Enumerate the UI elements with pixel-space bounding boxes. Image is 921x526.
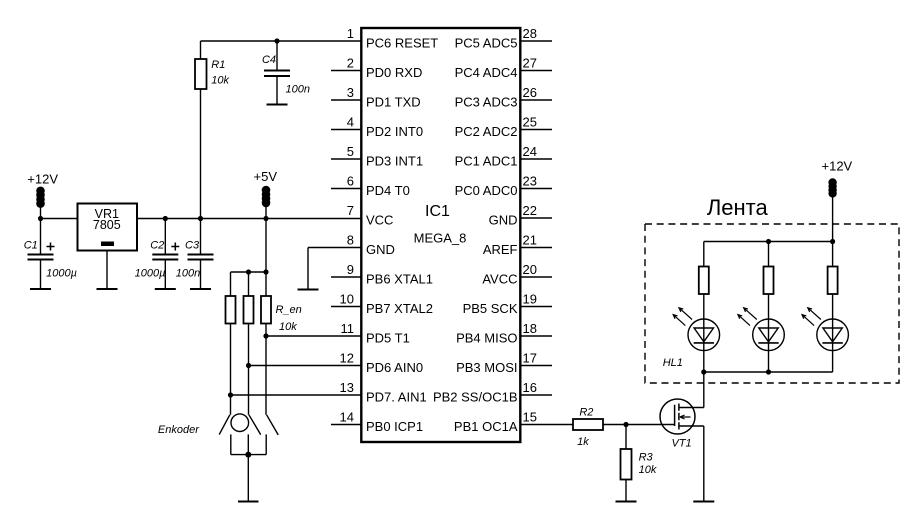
svg-text:16: 16 bbox=[523, 380, 537, 395]
svg-text:C2: C2 bbox=[150, 240, 164, 252]
svg-text:100n: 100n bbox=[176, 268, 200, 280]
svg-text:14: 14 bbox=[340, 410, 354, 425]
svg-text:24: 24 bbox=[523, 144, 537, 159]
svg-text:4: 4 bbox=[347, 115, 354, 130]
svg-text:1000µ: 1000µ bbox=[135, 268, 166, 280]
svg-text:12: 12 bbox=[340, 351, 354, 366]
svg-text:9: 9 bbox=[347, 262, 354, 277]
svg-text:20: 20 bbox=[523, 262, 537, 277]
svg-text:PD7. AIN1: PD7. AIN1 bbox=[366, 390, 427, 405]
svg-text:25: 25 bbox=[523, 115, 537, 130]
svg-text:27: 27 bbox=[523, 56, 537, 71]
svg-text:MEGA_8: MEGA_8 bbox=[414, 231, 467, 246]
svg-text:1k: 1k bbox=[577, 436, 589, 448]
svg-text:PC5 ADC5: PC5 ADC5 bbox=[455, 36, 518, 51]
svg-text:PB5 SCK: PB5 SCK bbox=[463, 301, 518, 316]
svg-text:1: 1 bbox=[347, 26, 354, 41]
svg-text:+12V: +12V bbox=[822, 159, 853, 174]
svg-text:PC1 ADC1: PC1 ADC1 bbox=[455, 154, 518, 169]
svg-text:5: 5 bbox=[347, 144, 354, 159]
svg-text:10: 10 bbox=[340, 292, 354, 307]
svg-text:15: 15 bbox=[523, 410, 537, 425]
svg-text:PD3 INT1: PD3 INT1 bbox=[366, 154, 423, 169]
svg-text:PC3 ADC3: PC3 ADC3 bbox=[455, 95, 518, 110]
svg-text:GND: GND bbox=[366, 242, 395, 257]
svg-text:PD6 AIN0: PD6 AIN0 bbox=[366, 360, 423, 375]
svg-text:26: 26 bbox=[523, 85, 537, 100]
svg-text:+5V: +5V bbox=[254, 169, 278, 184]
svg-text:Лента: Лента bbox=[707, 195, 769, 220]
svg-text:+12V: +12V bbox=[27, 172, 58, 187]
svg-text:10k: 10k bbox=[639, 464, 657, 476]
svg-text:C1: C1 bbox=[24, 240, 38, 252]
svg-text:PC4 ADC4: PC4 ADC4 bbox=[455, 65, 518, 80]
svg-text:10k: 10k bbox=[279, 321, 297, 333]
svg-text:PD1 TXD: PD1 TXD bbox=[366, 95, 421, 110]
svg-text:R1: R1 bbox=[211, 59, 225, 71]
svg-text:100n: 100n bbox=[286, 84, 310, 96]
svg-text:IC1: IC1 bbox=[425, 203, 450, 220]
svg-text:PD2 INT0: PD2 INT0 bbox=[366, 124, 423, 139]
svg-text:C4: C4 bbox=[262, 54, 276, 66]
svg-text:VT1: VT1 bbox=[672, 438, 692, 450]
svg-text:1000µ: 1000µ bbox=[46, 268, 77, 280]
svg-text:23: 23 bbox=[523, 174, 537, 189]
svg-text:19: 19 bbox=[523, 292, 537, 307]
svg-text:VCC: VCC bbox=[366, 213, 393, 228]
svg-text:PD0 RXD: PD0 RXD bbox=[366, 65, 422, 80]
svg-text:PC0 ADC0: PC0 ADC0 bbox=[455, 183, 518, 198]
svg-text:PB6 XTAL1: PB6 XTAL1 bbox=[366, 272, 433, 287]
svg-text:13: 13 bbox=[340, 380, 354, 395]
svg-text:18: 18 bbox=[523, 321, 537, 336]
svg-text:17: 17 bbox=[523, 351, 537, 366]
svg-text:22: 22 bbox=[523, 203, 537, 218]
svg-text:7805: 7805 bbox=[93, 218, 121, 232]
svg-text:6: 6 bbox=[347, 174, 354, 189]
svg-text:PB1 OC1A: PB1 OC1A bbox=[454, 419, 518, 434]
svg-text:R_en: R_en bbox=[276, 304, 302, 316]
svg-text:PB3 MOSI: PB3 MOSI bbox=[456, 360, 517, 375]
svg-text:R3: R3 bbox=[639, 452, 654, 464]
svg-text:PB0 ICP1: PB0 ICP1 bbox=[366, 419, 423, 434]
svg-text:PB2 SS/OC1B: PB2 SS/OC1B bbox=[433, 390, 518, 405]
svg-text:21: 21 bbox=[523, 233, 537, 248]
svg-text:GND: GND bbox=[489, 213, 518, 228]
svg-text:HL1: HL1 bbox=[663, 357, 683, 369]
svg-text:AREF: AREF bbox=[483, 242, 518, 257]
svg-text:PC6 RESET: PC6 RESET bbox=[366, 36, 438, 51]
svg-text:PB4 MISO: PB4 MISO bbox=[456, 331, 517, 346]
svg-text:PD4 T0: PD4 T0 bbox=[366, 183, 410, 198]
svg-text:8: 8 bbox=[347, 233, 354, 248]
svg-text:11: 11 bbox=[341, 321, 355, 336]
svg-text:PB7 XTAL2: PB7 XTAL2 bbox=[366, 301, 433, 316]
svg-text:AVCC: AVCC bbox=[482, 272, 517, 287]
svg-text:7: 7 bbox=[347, 203, 354, 218]
svg-text:2: 2 bbox=[347, 56, 354, 71]
svg-text:PC2 ADC2: PC2 ADC2 bbox=[455, 124, 518, 139]
svg-text:PD5 T1: PD5 T1 bbox=[366, 331, 410, 346]
svg-text:3: 3 bbox=[347, 85, 354, 100]
svg-text:10k: 10k bbox=[211, 75, 229, 87]
svg-text:C3: C3 bbox=[185, 240, 200, 252]
svg-text:R2: R2 bbox=[579, 406, 593, 418]
svg-text:Enkoder: Enkoder bbox=[158, 424, 200, 436]
svg-text:28: 28 bbox=[523, 26, 537, 41]
